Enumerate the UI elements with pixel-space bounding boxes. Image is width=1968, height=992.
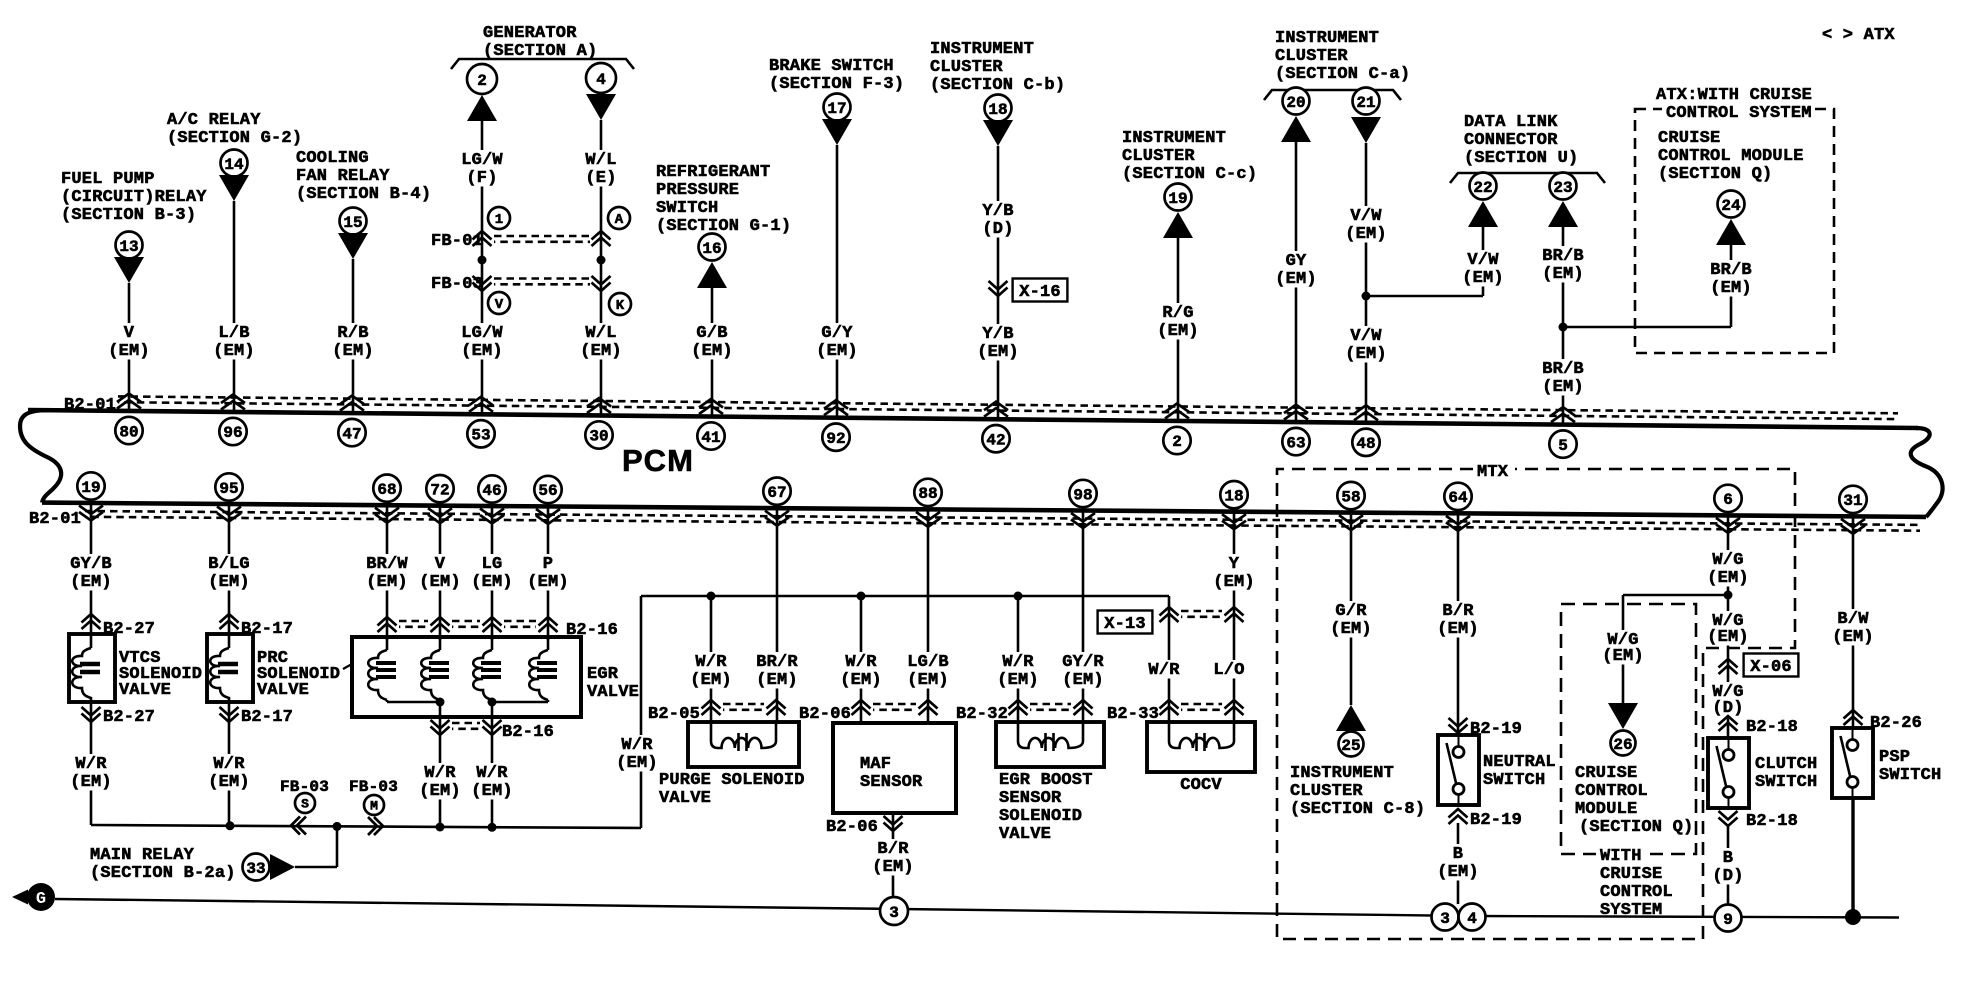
svg-text:W/R: W/R [845, 653, 877, 672]
svg-text:< > ATX: < > ATX [1822, 26, 1895, 45]
svg-text:(EM): (EM) [208, 773, 250, 792]
svg-text:PCM: PCM [622, 443, 694, 478]
cooling fan relay header text [296, 149, 431, 204]
svg-text:A: A [615, 212, 624, 228]
wire GY (EM) pin 63 [1273, 142, 1319, 422]
PCM pin 18 (bottom bus) with connector chevron [1220, 481, 1247, 529]
svg-text:4: 4 [596, 71, 606, 89]
wire from PSP switch to ground [1851, 798, 1854, 917]
svg-text:REFRIGERANT: REFRIGERANT [656, 163, 770, 182]
svg-text:41: 41 [701, 429, 720, 447]
svg-text:CLUTCH: CLUTCH [1755, 755, 1817, 774]
clutch switch label [1755, 755, 1817, 792]
wire B/R (EM) pin 64 [1435, 513, 1481, 735]
svg-text:B/R: B/R [1442, 602, 1474, 621]
svg-text:(D): (D) [1712, 867, 1743, 886]
PCM band right continuation squiggle [1911, 428, 1943, 517]
svg-text:VALVE: VALVE [659, 789, 711, 808]
svg-text:24: 24 [1721, 197, 1741, 215]
purge solenoid valve label [659, 771, 805, 808]
svg-text:B2-06: B2-06 [826, 818, 878, 837]
svg-text:63: 63 [1286, 434, 1305, 452]
PCM pin 56 (bottom bus) with connector chevron [534, 476, 561, 524]
connector 20 instrument cluster C-a [1281, 88, 1311, 143]
W/R (EM) riser label [614, 735, 660, 773]
wire V/W link to data link connector [1366, 224, 1483, 296]
svg-text:(EM): (EM) [1345, 345, 1387, 364]
EGR valve coil 3 [473, 637, 501, 700]
PCM pin 68 (bottom bus) with connector chevron [373, 475, 400, 523]
wire LG/W (F) [459, 121, 505, 414]
svg-text:CRUISE: CRUISE [1600, 865, 1662, 884]
svg-text:GY/R: GY/R [1062, 653, 1104, 672]
svg-text:(EM): (EM) [1157, 322, 1199, 341]
svg-text:MODULE: MODULE [1575, 800, 1637, 819]
wire B/R (EM) from MAF [870, 839, 916, 877]
svg-text:2: 2 [1172, 433, 1182, 451]
svg-text:MTX: MTX [1477, 463, 1509, 482]
svg-text:G: G [36, 890, 46, 909]
svg-text:CONTROL MODULE: CONTROL MODULE [1658, 147, 1804, 166]
svg-text:SOLENOID: SOLENOID [999, 807, 1082, 826]
svg-text:(E): (E) [585, 169, 616, 188]
instrument cluster C-a header text and bracket [1264, 29, 1410, 100]
svg-text:INSTRUMENT: INSTRUMENT [930, 40, 1034, 59]
svg-text:W/R: W/R [1148, 661, 1180, 680]
main relay header text [90, 846, 236, 883]
junction dot main relay [333, 822, 342, 831]
svg-text:W/R: W/R [1002, 653, 1034, 672]
svg-text:Y/B: Y/B [982, 325, 1013, 344]
svg-text:(EM): (EM) [1542, 265, 1584, 284]
svg-text:L/B: L/B [218, 324, 249, 343]
svg-text:95: 95 [219, 480, 238, 498]
wire W/R label below X-13 [1146, 660, 1182, 680]
svg-text:(SECTION C-c): (SECTION C-c) [1122, 165, 1257, 184]
wire V (EM) pin 80 [106, 283, 152, 411]
wire BR/W (EM) pin 68 [364, 505, 410, 640]
svg-text:GENERATOR: GENERATOR [483, 24, 577, 43]
svg-text:B2-01: B2-01 [64, 396, 116, 415]
EGR boost sensor solenoid valve box [996, 722, 1104, 767]
svg-text:SENSOR: SENSOR [860, 773, 923, 792]
svg-text:W/R: W/R [476, 764, 508, 783]
wire Y/B (EM) pin 42 [975, 324, 1021, 362]
svg-text:DATA LINK: DATA LINK [1464, 113, 1558, 132]
wire B (D) to ground node 9 [1710, 826, 1746, 904]
pin A generator side [608, 207, 630, 229]
connector B2-33 row [1107, 700, 1244, 724]
ground wire across page [55, 899, 1899, 918]
svg-text:(EM): (EM) [1275, 270, 1317, 289]
junction dot purge W/R [707, 592, 716, 601]
svg-text:20: 20 [1286, 94, 1305, 112]
svg-text:(SECTION B-2a): (SECTION B-2a) [90, 864, 236, 883]
PCM top bus line B2-01 [28, 410, 1918, 428]
VTCS solenoid valve [69, 634, 115, 702]
svg-text:25: 25 [1341, 737, 1360, 755]
svg-text:(EM): (EM) [756, 671, 798, 690]
PCM pin 92 (top bus) with connector chevron [822, 400, 849, 451]
PCM pin 98 (bottom bus) with connector chevron [1069, 480, 1096, 528]
svg-text:V: V [124, 324, 135, 343]
wire LG (EM) pin 46 [469, 506, 515, 640]
svg-text:BR/R: BR/R [756, 653, 798, 672]
svg-text:(EM): (EM) [997, 671, 1039, 690]
svg-text:(EM): (EM) [977, 343, 1019, 362]
wire B/W (EM) pin 31 [1830, 516, 1876, 728]
svg-text:17: 17 [827, 100, 846, 118]
svg-text:LG/W: LG/W [461, 151, 503, 170]
svg-text:COCV: COCV [1180, 776, 1222, 795]
svg-text:(SECTION Q): (SECTION Q) [1658, 165, 1772, 184]
EGR boost sensor solenoid valve label [999, 771, 1093, 844]
svg-text:SYSTEM: SYSTEM [1600, 901, 1662, 920]
svg-text:(D): (D) [982, 220, 1013, 239]
svg-text:FB-03: FB-03 [280, 778, 329, 796]
svg-text:47: 47 [342, 425, 361, 443]
svg-text:PRESSURE: PRESSURE [656, 181, 739, 200]
wire G/Y (EM) pin 92 [814, 145, 860, 418]
connector 15 cooling fan relay [338, 208, 368, 260]
wire BR/B (EM) pin 5 [1540, 227, 1586, 425]
svg-text:W/R: W/R [75, 755, 107, 774]
svg-text:(EM): (EM) [1330, 620, 1372, 639]
with cruise control system caption [1596, 845, 1673, 920]
junction dot EGR3 [488, 823, 497, 832]
W/R distribution wire [641, 595, 1169, 598]
connector B2-18 lower [1719, 811, 1799, 831]
junction node BR/B [1559, 323, 1568, 332]
svg-text:GY: GY [1286, 252, 1307, 271]
svg-text:72: 72 [430, 481, 449, 499]
PCM pin 67 (bottom bus) with connector chevron [763, 478, 790, 526]
connector FB-03 S on W/R wire [280, 778, 329, 835]
PCM pin 30 (top bus) with connector chevron [585, 398, 612, 449]
connector B2-19 upper [1449, 718, 1523, 739]
svg-text:48: 48 [1356, 435, 1375, 453]
wire V/W (EM) pin 48 lower label [1343, 326, 1389, 364]
PCM pin 88 (bottom bus) with connector chevron [914, 479, 941, 527]
MAF sensor box [833, 723, 956, 813]
connector B2-18 upper [1719, 716, 1799, 737]
connector 17 brake switch [822, 94, 852, 146]
connector 14 A/C relay [219, 150, 249, 202]
svg-text:CLUSTER: CLUSTER [930, 58, 1003, 77]
connector X-16 on Y/B wire [989, 279, 1068, 303]
wire BR/B (EM) pin 5 lower label [1540, 359, 1586, 397]
connector 21 instrument cluster C-a [1351, 88, 1381, 144]
PCM pin 95 (bottom bus) with connector chevron [215, 473, 242, 521]
svg-text:CONTROL: CONTROL [1600, 883, 1673, 902]
wire from main relay to W/R junction [295, 826, 337, 867]
PSP switch label [1879, 748, 1941, 785]
junction dot W/G [1724, 591, 1733, 600]
svg-text:(EM): (EM) [1437, 863, 1479, 882]
svg-text:18: 18 [1224, 487, 1243, 505]
svg-text:FB-01: FB-01 [431, 232, 483, 251]
svg-text:(EM): (EM) [332, 342, 374, 361]
instrument cluster C-8 label [1290, 764, 1425, 819]
svg-text:Y/B: Y/B [982, 202, 1013, 221]
wire G/R (EM) pin 58 [1328, 513, 1374, 705]
svg-text:31: 31 [1843, 492, 1862, 510]
wire W/R (EM) from EGR coil 3 [469, 763, 515, 801]
svg-text:46: 46 [482, 482, 501, 500]
EGR valve label [587, 665, 639, 702]
svg-text:(EM): (EM) [691, 342, 733, 361]
PRC solenoid valve label [257, 649, 340, 700]
connector B2-17 upper [220, 614, 294, 639]
wire W/G (EM) to cruise module [1600, 595, 1728, 703]
PCM pin 41 (top bus) with connector chevron [697, 399, 724, 450]
svg-text:CRUISE: CRUISE [1575, 764, 1637, 783]
wire BR/B (EM) to connector 24 [1708, 260, 1754, 298]
connector 19 instrument cluster C-c [1163, 184, 1193, 239]
ground node 3 (MAF) [880, 897, 908, 925]
svg-text:WITH: WITH [1600, 847, 1642, 866]
svg-text:LG/W: LG/W [461, 324, 503, 343]
wire B (EM) to ground nodes 3 4 [1435, 823, 1481, 904]
wire W/G (D) label [1710, 682, 1746, 718]
junction node V/W [1362, 292, 1371, 301]
PCM pin 42 (top bus) with connector chevron [982, 402, 1009, 453]
PCM pin 63 (top bus) with connector chevron [1282, 405, 1309, 456]
svg-text:VALVE: VALVE [999, 825, 1051, 844]
wire V (EM) pin 72 [417, 506, 463, 640]
with cruise control system dashed box [1561, 604, 1696, 854]
wire W/L (E) [583, 120, 619, 416]
connector 26 cruise control module [1608, 703, 1638, 756]
svg-text:(EM): (EM) [816, 342, 858, 361]
svg-text:92: 92 [826, 430, 845, 448]
PCM band left continuation squiggle [20, 410, 61, 502]
svg-text:GY/B: GY/B [70, 555, 112, 574]
wire R/B (EM) pin 47 [330, 259, 376, 413]
wire BR/B link to cruise control module [1563, 244, 1731, 327]
junction dots FB rows [478, 256, 606, 265]
svg-text:(EM): (EM) [872, 858, 914, 877]
svg-text:B2-18: B2-18 [1746, 812, 1798, 831]
svg-text:30: 30 [589, 428, 608, 446]
svg-text:(SECTION B-3): (SECTION B-3) [61, 206, 196, 225]
svg-text:18: 18 [988, 101, 1007, 119]
wire B/LG (EM) pin 95 [206, 504, 252, 634]
svg-text:14: 14 [224, 156, 244, 174]
svg-text:CLUSTER: CLUSTER [1290, 782, 1363, 801]
wire L/O label below X-13 [1211, 660, 1247, 680]
svg-text:42: 42 [986, 432, 1005, 450]
svg-text:(EM): (EM) [1462, 269, 1504, 288]
svg-text:G/R: G/R [1335, 602, 1367, 621]
svg-text:(EM): (EM) [1345, 225, 1387, 244]
svg-text:W/R: W/R [621, 736, 653, 755]
svg-text:SWITCH: SWITCH [1879, 766, 1941, 785]
connector 4 generator [586, 63, 616, 120]
svg-text:(EM): (EM) [366, 573, 408, 592]
svg-text:(EM): (EM) [70, 573, 112, 592]
label B2-01 bottom [29, 510, 81, 529]
connector 22 data link connector [1468, 173, 1498, 228]
svg-text:(EM): (EM) [70, 773, 112, 792]
svg-text:SWITCH: SWITCH [656, 199, 718, 218]
svg-text:(SECTION F-3): (SECTION F-3) [769, 75, 904, 94]
label B2-01 top [64, 396, 116, 415]
svg-text:B2-27: B2-27 [103, 620, 155, 639]
connector B2-27 upper [82, 614, 156, 639]
wire G/B (EM) pin 41 [689, 288, 735, 417]
cruise control module label [1575, 764, 1693, 837]
svg-text:INSTRUMENT: INSTRUMENT [1290, 764, 1394, 783]
svg-text:B2-16: B2-16 [502, 723, 554, 742]
junction dot PRC/W-R [226, 821, 235, 830]
PCM pin 72 (bottom bus) with connector chevron [426, 475, 453, 523]
PCM pin 48 (top bus) with connector chevron [1352, 405, 1379, 456]
connector B2-17 lower [220, 707, 294, 727]
PCM pin 19 (bottom bus) with connector chevron [77, 472, 104, 520]
instrument cluster C-b header text [930, 40, 1065, 95]
svg-text:(EM): (EM) [616, 754, 658, 773]
svg-text:96: 96 [223, 424, 242, 442]
purge solenoid valve box [688, 722, 799, 767]
svg-text:B: B [1453, 845, 1463, 864]
svg-text:(EM): (EM) [108, 342, 150, 361]
connector B2-32 row [956, 700, 1093, 724]
svg-text:(EM): (EM) [461, 342, 503, 361]
svg-text:(EM): (EM) [1710, 279, 1752, 298]
svg-text:(SECTION U): (SECTION U) [1464, 149, 1578, 168]
connector 18 instrument cluster C-b [983, 95, 1013, 147]
svg-text:SWITCH: SWITCH [1755, 773, 1817, 792]
svg-text:19: 19 [81, 479, 100, 497]
VTCS solenoid valve label [119, 649, 202, 700]
svg-text:1: 1 [495, 212, 503, 228]
svg-text:(EM): (EM) [213, 342, 255, 361]
PCM pin 2 (top bus) with connector chevron [1163, 404, 1190, 455]
fuel pump relay header text [61, 170, 207, 225]
ground junction dot PSP [1845, 909, 1861, 925]
svg-text:(SECTION G-1): (SECTION G-1) [656, 217, 791, 236]
wire Y (EM) pin 18 [1211, 512, 1257, 722]
COCV label [1180, 776, 1222, 795]
svg-text:CLUSTER: CLUSTER [1122, 147, 1195, 166]
svg-text:A/C RELAY: A/C RELAY [167, 111, 261, 130]
svg-text:68: 68 [377, 481, 396, 499]
svg-text:W/R: W/R [424, 764, 456, 783]
svg-text:(F): (F) [466, 169, 497, 188]
EGR valve coil 1 [368, 637, 440, 702]
ATX with cruise control system dashed box [1635, 109, 1834, 353]
svg-text:L/O: L/O [1213, 661, 1244, 680]
svg-text:S: S [301, 797, 309, 812]
svg-text:3: 3 [1440, 910, 1450, 928]
neutral switch label [1483, 753, 1556, 790]
connector B2-16 upper row [378, 617, 619, 640]
ground node 9 [1715, 905, 1742, 932]
svg-text:P: P [543, 555, 553, 574]
connector FB-01 row [431, 231, 611, 251]
wire W/G (EM) label below junction [1705, 611, 1751, 647]
svg-text:PSP: PSP [1879, 748, 1910, 767]
svg-text:(EM): (EM) [419, 573, 461, 592]
svg-text:BRAKE SWITCH: BRAKE SWITCH [769, 57, 894, 76]
connector B2-06 row [799, 700, 938, 724]
svg-text:W/L: W/L [585, 324, 616, 343]
svg-text:(EM): (EM) [471, 782, 513, 801]
pin K [609, 293, 631, 315]
svg-text:(SECTION G-2): (SECTION G-2) [167, 129, 302, 148]
PCM pin 53 (top bus) with connector chevron [467, 397, 494, 448]
svg-text:(EM): (EM) [907, 671, 949, 690]
pin 1 generator side [488, 207, 510, 229]
svg-text:PURGE SOLENOID: PURGE SOLENOID [659, 771, 805, 790]
svg-text:(SECTION B-4): (SECTION B-4) [296, 185, 431, 204]
PSP switch [1832, 728, 1873, 798]
instrument cluster C-c header text [1122, 129, 1257, 184]
svg-text:CONTROL SYSTEM: CONTROL SYSTEM [1666, 104, 1812, 123]
wire BR/R (EM) pin 67 [754, 508, 800, 722]
svg-text:FUEL PUMP: FUEL PUMP [61, 170, 155, 189]
svg-text:58: 58 [1341, 488, 1360, 506]
PCM bottom bus line B2-01 [42, 503, 1926, 517]
PRC solenoid valve [207, 634, 253, 702]
ground node 4 (neutral switch) [1459, 904, 1486, 931]
connector 24 cruise control module [1716, 191, 1746, 246]
svg-text:BR/B: BR/B [1542, 247, 1584, 266]
svg-text:SWITCH: SWITCH [1483, 771, 1545, 790]
COCV box [1147, 722, 1255, 772]
svg-text:BR/B: BR/B [1542, 360, 1584, 379]
svg-text:53: 53 [471, 427, 490, 445]
wire L/B (EM) pin 96 [211, 201, 257, 412]
cruise control module (ATX) header text [1658, 129, 1804, 184]
svg-text:13: 13 [119, 238, 138, 256]
brake switch header text [769, 57, 904, 94]
MTX dashed box [1277, 463, 1795, 939]
svg-text:FAN RELAY: FAN RELAY [296, 167, 390, 186]
svg-text:X-16: X-16 [1019, 283, 1061, 302]
svg-text:(EM): (EM) [1602, 647, 1644, 666]
wire GY/B (EM) pin 19 [68, 503, 114, 634]
svg-text:(EM): (EM) [419, 782, 461, 801]
wire W/R (EM) to EGR boost solenoid [995, 596, 1041, 722]
svg-text:EGR: EGR [587, 665, 619, 684]
svg-text:MAF: MAF [860, 755, 891, 774]
svg-text:(SECTION C-b): (SECTION C-b) [930, 76, 1065, 95]
svg-text:(EM): (EM) [527, 573, 569, 592]
svg-text:(EM): (EM) [690, 671, 732, 690]
svg-text:LG/B: LG/B [907, 653, 949, 672]
svg-text:5: 5 [1558, 437, 1568, 455]
svg-text:3: 3 [889, 904, 899, 922]
connector 33 main relay [243, 854, 296, 881]
wire Y/B (D) [980, 146, 1016, 419]
svg-text:B/R: B/R [877, 840, 909, 859]
svg-text:W/L: W/L [585, 151, 616, 170]
svg-text:VALVE: VALVE [587, 683, 639, 702]
svg-text:(CIRCUIT)RELAY: (CIRCUIT)RELAY [61, 188, 207, 207]
svg-text:CONNECTOR: CONNECTOR [1464, 131, 1558, 150]
svg-text:(EM): (EM) [471, 573, 513, 592]
svg-text:B2-01: B2-01 [29, 510, 81, 529]
connector X-06 [1719, 654, 1799, 678]
svg-text:R/B: R/B [337, 324, 368, 343]
svg-text:COOLING: COOLING [296, 149, 369, 168]
svg-text:EGR BOOST: EGR BOOST [999, 771, 1093, 790]
svg-text:15: 15 [343, 214, 362, 232]
svg-text:B2-17: B2-17 [241, 708, 293, 727]
svg-text:BR/B: BR/B [1710, 261, 1752, 280]
